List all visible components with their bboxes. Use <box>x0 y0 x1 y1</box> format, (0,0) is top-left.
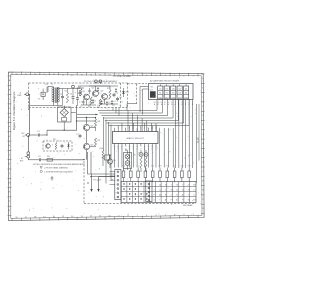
svg-text:C9: C9 <box>99 93 101 95</box>
svg-text:4: 4 <box>193 194 194 196</box>
wire bus IC-bottom <box>114 146 156 168</box>
notes line 3 <box>40 170 74 173</box>
transistor Q4 <box>83 124 94 130</box>
svg-text:7: 7 <box>182 184 183 186</box>
svg-text:P1: P1 <box>171 200 173 202</box>
wire L junction <box>127 104 137 111</box>
svg-text:11: 11 <box>164 102 166 104</box>
capacitor C4A <box>76 89 79 107</box>
resistor R1 <box>46 84 49 93</box>
relay K1 (filled) <box>150 86 155 97</box>
resistor R26 <box>166 166 169 182</box>
svg-text:T1: T1 <box>51 84 53 86</box>
resistor R9 <box>94 138 101 146</box>
resistor R23 <box>144 166 147 182</box>
wire through bus v4 <box>111 125 113 180</box>
svg-text:R28: R28 <box>180 166 183 168</box>
svg-text:R29: R29 <box>188 166 191 168</box>
svg-text:Q5: Q5 <box>185 88 187 90</box>
wire bus block-to-IC staircase <box>98 100 189 132</box>
resistor R12 <box>145 157 147 172</box>
dashed boundary left (bottom assembly) <box>83 161 85 204</box>
block pin name strip <box>154 103 193 106</box>
wire Q5 emitter <box>86 150 88 160</box>
svg-text:4: 4 <box>165 189 166 191</box>
resistor R10 <box>100 148 105 158</box>
capacitor C22 <box>88 88 90 94</box>
block label row above <box>150 80 180 83</box>
svg-text:R22: R22 <box>137 166 140 168</box>
wire bus stubs from assembly <box>113 108 119 116</box>
wire bus block-down <box>175 100 192 169</box>
svg-text:NOTES: REFERENCE DESIGNATIONS: NOTES: REFERENCE DESIGNATIONS ARE ABBREV… <box>33 163 86 166</box>
capacitor C28 <box>115 88 117 93</box>
block pin labels top <box>160 84 187 86</box>
svg-text:T: T <box>179 84 180 86</box>
wire bus IC-top <box>114 123 156 129</box>
transistor Q1 <box>83 91 90 100</box>
border zone letters <box>9 74 205 219</box>
connector strip P2 <box>146 181 152 202</box>
svg-text:9: 9 <box>171 102 172 104</box>
svg-text:DS2: DS2 <box>165 97 169 99</box>
U1 bottom pin numbers <box>114 146 157 148</box>
svg-text:CR1: CR1 <box>125 92 129 94</box>
svg-text:Q1: Q1 <box>159 88 161 90</box>
connector strip P1 <box>115 170 121 200</box>
svg-text:680: 680 <box>112 105 115 107</box>
svg-text:30: 30 <box>159 184 161 186</box>
svg-text:J2: J2 <box>176 189 178 191</box>
test point TP2 <box>99 80 102 84</box>
svg-text:14: 14 <box>154 102 156 104</box>
svg-text:30: 30 <box>165 184 167 186</box>
svg-text:7: 7 <box>154 189 155 191</box>
transformer T1 secondary <box>51 84 59 104</box>
transformer T1 primary <box>52 87 54 104</box>
tiny labels cluster A <box>79 93 123 108</box>
matrix junction dots <box>123 183 147 199</box>
svg-text:B: B <box>164 104 165 106</box>
wire bus mid-down <box>160 128 174 168</box>
transistor Q2 <box>92 88 99 97</box>
svg-text:XA1 REAR: XA1 REAR <box>183 204 193 207</box>
svg-text:DS3: DS3 <box>171 97 175 99</box>
diode CR2 <box>67 142 69 150</box>
capacitor C25 <box>100 100 102 105</box>
svg-text:J2: J2 <box>182 189 184 191</box>
capacitor C21 <box>82 99 84 105</box>
resistor R28 <box>180 166 183 182</box>
ground symbol <box>51 176 54 180</box>
resistor R3 (series) <box>47 156 53 161</box>
svg-text:4: 4 <box>154 200 155 202</box>
lamp DS4 <box>125 161 130 166</box>
svg-text:A7: A7 <box>182 193 184 196</box>
wire top cluster h1 <box>77 88 85 89</box>
wire left vertical bus <box>28 94 29 152</box>
wire T1 top leads <box>48 87 81 89</box>
svg-text:E3: E3 <box>193 200 195 202</box>
mixer diode ring <box>60 109 68 117</box>
svg-text:DS1: DS1 <box>159 97 163 99</box>
resistor R4 <box>78 87 82 96</box>
svg-text:= FRONT PANEL MARKING: = FRONT PANEL MARKING <box>44 166 68 169</box>
svg-text:21: 21 <box>125 146 127 148</box>
lamp DS2 <box>144 150 148 157</box>
svg-text:Figure 5-3. Oscillator Diagram: Figure 5-3. Oscillator Diagram <box>12 91 16 130</box>
dashed boundary extension <box>128 84 148 104</box>
transistor Q5 <box>83 143 94 149</box>
wire Q4-Q5 <box>86 131 88 144</box>
border zone tick marks <box>8 72 205 222</box>
svg-text:J: J <box>9 154 10 156</box>
amp stage box <box>105 155 110 160</box>
svg-text:A7: A7 <box>165 199 167 202</box>
svg-text:30: 30 <box>176 184 178 186</box>
resistor R5 <box>88 97 92 108</box>
table footer text <box>183 204 193 207</box>
capacitor C7 <box>76 134 82 138</box>
mixer lower box <box>62 118 67 122</box>
wire left bus v3 <box>90 152 92 174</box>
assembly label A1 OSC <box>84 80 118 83</box>
svg-text:7: 7 <box>171 184 172 186</box>
wire mid h2 <box>77 120 96 122</box>
svg-text:R21: R21 <box>129 166 132 168</box>
connector table cell text <box>154 183 196 201</box>
resistor R27 <box>173 166 176 182</box>
wire mid h1 <box>77 118 96 120</box>
capacitor C1 <box>37 131 41 137</box>
svg-text:A7: A7 <box>176 199 178 202</box>
capacitor C4 <box>70 89 75 105</box>
connector table XA1 grid <box>121 182 196 203</box>
svg-text:A7: A7 <box>193 183 195 186</box>
wire Q4 collector <box>86 118 88 125</box>
mixer assembly box <box>58 107 72 122</box>
resistor R29 <box>188 166 191 182</box>
wire mid h3 <box>90 127 96 131</box>
lamp DS3 <box>125 154 130 159</box>
svg-text:T: T <box>186 84 187 86</box>
transistor Q14 <box>46 144 50 148</box>
svg-text:E3: E3 <box>165 194 167 196</box>
assembly divider (dashed) <box>120 83 122 108</box>
notes line 2 <box>40 166 68 169</box>
wire bus long line <box>77 114 98 118</box>
wire through bus v1 <box>103 117 105 150</box>
assembly boundary A1 (dashed box) <box>29 83 128 110</box>
U1 top pin numbers <box>114 128 157 130</box>
svg-text:P1: P1 <box>188 189 190 191</box>
svg-text:R16: R16 <box>120 102 123 104</box>
transformer T1 core <box>55 88 56 104</box>
svg-text:J: J <box>203 152 204 154</box>
wire block feed 1 <box>140 87 149 113</box>
svg-text:A7: A7 <box>159 193 161 196</box>
capacitor C26 <box>106 101 108 106</box>
svg-text:R14: R14 <box>92 96 95 98</box>
svg-text:P1: P1 <box>154 194 156 196</box>
connector J2 <box>21 133 29 138</box>
wire bus bottom h1 <box>88 173 115 175</box>
drawing border frame (inner) <box>11 74 202 218</box>
diode CR1 <box>122 88 129 97</box>
resistor R25 <box>158 166 161 182</box>
wire J3 horizontal <box>28 158 84 160</box>
svg-text:13: 13 <box>157 102 159 104</box>
capacitor C3 <box>60 89 65 106</box>
svg-text:K2: K2 <box>166 93 168 95</box>
svg-text:R1: R1 <box>46 84 48 86</box>
wire Q6 leads <box>103 155 110 168</box>
wire top cluster h3 <box>81 100 96 105</box>
connector J3 <box>20 152 30 163</box>
wire J2 horizontal <box>30 130 77 135</box>
svg-text:R27: R27 <box>173 166 176 168</box>
capacitor C5 <box>113 93 119 97</box>
wire left bus v2 <box>87 152 89 174</box>
driver Q12 <box>177 84 182 99</box>
wire through bus v2 <box>105 120 107 184</box>
capacitor C6 <box>116 97 122 101</box>
wire E2 top link <box>99 176 115 178</box>
drawing border frame (outer) <box>8 72 204 221</box>
dashed boundary bottom (assembly) <box>84 203 196 205</box>
svg-text:T: T <box>173 84 174 86</box>
svg-text:R1: R1 <box>171 189 173 191</box>
test point TP3 <box>72 85 75 88</box>
svg-text:R26: R26 <box>166 166 169 168</box>
dashed box A1A3 <box>43 141 72 151</box>
svg-text:17: 17 <box>140 146 142 148</box>
svg-text:R23: R23 <box>144 166 147 168</box>
svg-text:C4: C4 <box>70 94 72 96</box>
arrow terminal E2 <box>97 177 99 193</box>
svg-text:C10: C10 <box>113 101 116 103</box>
svg-text:T: T <box>160 84 161 86</box>
output block J4 outline <box>149 84 194 100</box>
svg-text:K3: K3 <box>172 93 174 95</box>
junction dots <box>76 117 127 184</box>
transistor Q3 <box>101 90 108 99</box>
capacitor C20 <box>78 90 80 96</box>
resistor R21 <box>129 166 132 182</box>
wire left bus lower <box>0 0 1 1</box>
wire block feed 2 <box>143 89 149 115</box>
svg-text:P/O A1A1 BOARD: P/O A1A1 BOARD <box>113 75 131 78</box>
svg-text:Q2: Q2 <box>166 88 168 90</box>
svg-text:R17: R17 <box>53 139 56 141</box>
resistor R17 <box>53 139 57 150</box>
svg-text:220: 220 <box>93 101 96 103</box>
svg-text:R25: R25 <box>158 166 161 168</box>
svg-text:R2: R2 <box>65 91 67 93</box>
wire J1 to assembly <box>29 93 30 95</box>
svg-text:R1: R1 <box>176 194 178 196</box>
transistor Q6 <box>107 159 116 164</box>
svg-text:DS4: DS4 <box>178 97 182 99</box>
driver Q9 <box>158 84 163 99</box>
svg-text:Q4: Q4 <box>178 88 180 90</box>
svg-text:R15: R15 <box>106 99 109 101</box>
svg-text:DS5: DS5 <box>184 97 188 99</box>
svg-text:7: 7 <box>159 200 160 202</box>
svg-text:.01: .01 <box>108 102 111 104</box>
wire mid h4 <box>90 145 96 148</box>
wire top rail <box>78 85 118 87</box>
lamp housing box <box>124 153 132 169</box>
svg-text:P1: P1 <box>182 200 184 202</box>
svg-text:4: 4 <box>171 194 172 196</box>
svg-text:R1: R1 <box>188 200 190 202</box>
wire bus bottom h2 <box>92 176 115 178</box>
lamp DS1 <box>139 150 143 157</box>
capacitor C27 <box>111 100 113 105</box>
capacitor C11 <box>61 144 64 148</box>
block pin labels bottom <box>154 102 193 104</box>
svg-text:C3: C3 <box>60 94 62 96</box>
svg-text:.05: .05 <box>88 103 90 105</box>
assembly label right <box>113 75 131 78</box>
U1 top pins <box>114 129 156 131</box>
svg-text:B: B <box>157 104 158 106</box>
resistor R22 <box>137 166 140 182</box>
resistor R20 <box>122 166 125 182</box>
resistor R6 <box>97 99 101 109</box>
svg-text:= SCREWDRIVER ADJUSTMENT: = SCREWDRIVER ADJUSTMENT <box>44 170 74 173</box>
wire through bus v3 <box>108 122 110 155</box>
wire right edge v1 <box>196 104 198 183</box>
connector J1 <box>18 92 29 97</box>
scan noise speckles <box>13 76 202 217</box>
arrow terminal E1 <box>90 174 92 192</box>
svg-text:BC: BC <box>21 133 24 135</box>
svg-text:B: B <box>171 104 172 106</box>
svg-text:REL: REL <box>150 86 154 88</box>
svg-text:R24: R24 <box>151 166 154 168</box>
wire vertical x76.5 <box>76 105 78 130</box>
wire top cluster h4 <box>100 99 118 104</box>
wire T1 bottom node <box>30 104 63 106</box>
svg-text:C4: C4 <box>159 189 161 191</box>
resistor R24 <box>151 166 154 182</box>
capacitor C24 <box>97 87 99 92</box>
wire top cluster h2 <box>89 86 110 91</box>
svg-text:4: 4 <box>193 189 194 191</box>
resistor R8 <box>94 119 101 127</box>
wire mixer leads <box>63 106 75 131</box>
wire lamp leads <box>128 150 137 170</box>
figure caption (rotated) <box>12 91 16 130</box>
resistor R7 <box>107 88 111 99</box>
resistor R2 <box>65 89 69 104</box>
svg-text:K4: K4 <box>179 93 181 95</box>
svg-text:K1: K1 <box>159 93 161 95</box>
right margin text (rotated) <box>196 137 200 143</box>
svg-text:T: T <box>166 84 167 86</box>
svg-text:R20: R20 <box>122 166 125 168</box>
crystal Y1 <box>38 89 46 101</box>
svg-text:A1A1U1 1820-0077: A1A1U1 1820-0077 <box>126 137 144 140</box>
wire right edge v2 <box>198 104 200 160</box>
capacitor C23 <box>92 99 94 104</box>
driver Q11 <box>171 84 176 99</box>
notes line 1 <box>33 163 86 166</box>
driver Q13 <box>184 84 189 99</box>
driver Q10 <box>164 84 169 99</box>
op-amp U1 body <box>113 132 159 144</box>
test point TP1 <box>95 80 98 84</box>
svg-text:10: 10 <box>80 106 82 108</box>
resistor R11 <box>140 157 142 172</box>
junction TP text <box>93 180 102 182</box>
capacitor C2 <box>38 156 42 162</box>
U1 bottom pins <box>114 144 156 146</box>
table left stubs <box>110 172 115 185</box>
U1 bottom pin names <box>114 148 158 150</box>
junction dot J2 <box>46 134 47 135</box>
